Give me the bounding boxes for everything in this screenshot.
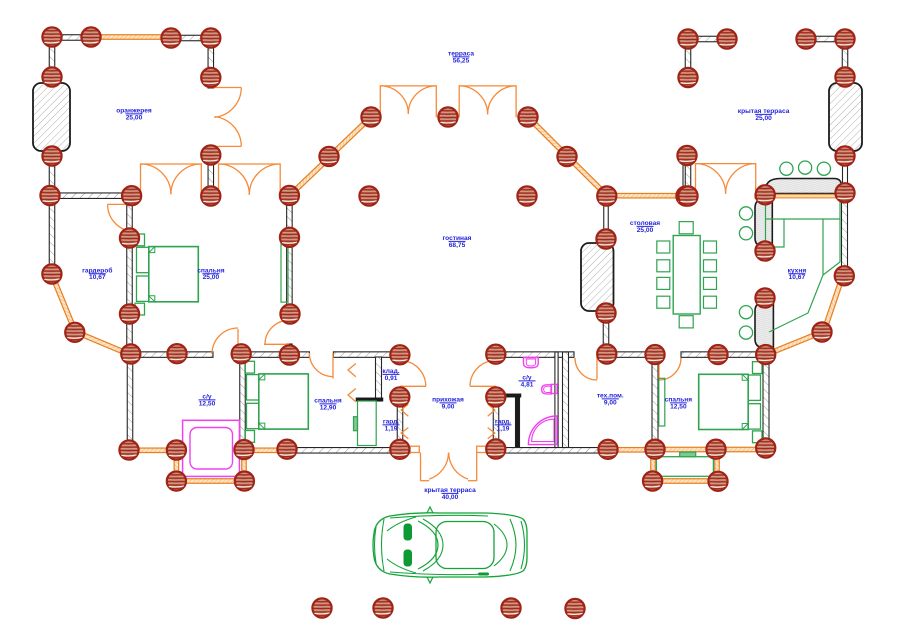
log column P40 [120, 304, 139, 323]
log column P34 [280, 228, 299, 247]
log column P73 [501, 598, 520, 617]
log column P36 [755, 241, 774, 260]
bar stool [739, 207, 752, 220]
bedroom1250 east wall [763, 357, 769, 448]
kitchen worktop edge lines (green) [766, 198, 841, 332]
fireplace F3 (dining) [581, 243, 614, 311]
corner shower bath481 [528, 416, 557, 445]
kitchen counter front strip (orange) [765, 194, 841, 198]
svg-text:0,91: 0,91 [385, 375, 398, 382]
log column P20 [319, 147, 338, 166]
log column P44 [812, 322, 831, 341]
svg-text:56,25: 56,25 [453, 57, 470, 64]
log column P63 [598, 440, 617, 459]
log column P32 [678, 186, 697, 205]
svg-text:12,90: 12,90 [320, 404, 337, 411]
bench bay south wall [650, 479, 720, 484]
log column P21 [557, 147, 576, 166]
south wall orange SE [714, 447, 768, 452]
bench bay east wall [715, 448, 720, 483]
bench bay north wall [653, 447, 719, 452]
terrace diagonal wall NW [326, 114, 373, 159]
svg-text:10,67: 10,67 [789, 274, 806, 281]
dining chair left [657, 260, 670, 272]
corridor wall stub [280, 193, 290, 199]
zigzag opening hall west 1 [401, 404, 408, 416]
log column P7 [796, 29, 815, 48]
south wing north wall A [128, 352, 213, 358]
covered terrace west wall lower [685, 150, 691, 199]
pool bay east wall [242, 449, 247, 483]
kitchen side counter upper (grey) [755, 200, 772, 247]
zigzag opening bedroom north 1 [348, 364, 356, 377]
log column P35 [596, 229, 615, 248]
svg-text:9,00: 9,00 [442, 403, 455, 410]
log column P19 [835, 146, 854, 165]
south wall black west [287, 448, 402, 454]
right wardrobe east wall [515, 397, 520, 451]
entrance stub east [487, 448, 497, 454]
dining chair left [657, 241, 670, 253]
closet door to hall [400, 385, 426, 387]
log column P15 [518, 107, 537, 126]
log column P68 [235, 472, 254, 491]
dining chair left [657, 277, 670, 289]
bedroom1290 door [332, 353, 334, 379]
terrace diagonal wall SW [286, 155, 331, 198]
wardrobe strip bedroom1250 [659, 378, 665, 426]
log column P13 [361, 107, 380, 126]
log column P54 [756, 345, 775, 364]
bar stool [817, 162, 830, 175]
toilet bath481 [551, 384, 557, 393]
garderobe door [108, 203, 135, 205]
svg-text:9,00: 9,00 [604, 399, 617, 406]
bath4 east wall [555, 352, 558, 450]
south wall stub [201, 193, 211, 199]
bar stool [739, 306, 752, 319]
orangery south wall [48, 193, 136, 199]
log column P6 [717, 29, 736, 48]
log column P69 [643, 471, 662, 490]
zigzag opening bedroom north 2 [348, 389, 356, 402]
log column P27 [517, 186, 536, 205]
orangery west wall upper [49, 33, 55, 81]
log column P1 [42, 27, 61, 46]
log column P72 [373, 598, 392, 617]
bar stool [739, 326, 752, 339]
log column P11 [678, 68, 697, 87]
washbasin bath481 [524, 358, 539, 368]
pool bay south wall [173, 479, 247, 484]
kitchen diagonal wall upper [821, 271, 846, 334]
south wall orange SW [126, 448, 178, 453]
entrance stub west [399, 448, 410, 454]
log column P59 [234, 440, 253, 459]
log column P56 [486, 387, 505, 406]
pool bay west wall [174, 449, 179, 483]
terrace diagonal wall NE [525, 114, 569, 158]
south wing north wall E [597, 352, 656, 358]
log column P3 [161, 28, 180, 47]
svg-text:25,00: 25,00 [203, 274, 220, 281]
bath12 west wall [127, 352, 133, 452]
svg-text:40,00: 40,00 [442, 494, 459, 501]
log column P64 [645, 440, 664, 459]
techroom door [596, 358, 598, 379]
zigzag opening hall east 1 [488, 404, 495, 416]
entrance pilaster east [477, 446, 487, 452]
orangery east wall upper [208, 34, 214, 80]
log column P38 [835, 266, 854, 285]
covered terrace east wall upper [842, 35, 848, 81]
log column P74 [565, 599, 584, 618]
log column P25 [280, 186, 299, 205]
svg-text:25,00: 25,00 [637, 227, 654, 234]
south wing north wall F [681, 352, 767, 358]
closet west wall [376, 357, 382, 401]
svg-text:1,19: 1,19 [497, 425, 510, 432]
dining chair right [704, 296, 717, 308]
wardrobe handle bedroom1290 [354, 417, 358, 431]
log column P33 [120, 228, 139, 247]
svg-text:12,50: 12,50 [670, 403, 687, 410]
log column P50 [486, 345, 505, 364]
car (top view) on parking terrace [373, 507, 527, 583]
bedroom25 east wall [287, 193, 293, 322]
bath12 east wall [240, 352, 246, 450]
svg-text:68,75: 68,75 [449, 242, 466, 249]
log column P48 [280, 345, 299, 364]
dining north wall pier [683, 158, 688, 198]
bedroom25 door [264, 343, 289, 345]
double bed bedroom-25 [135, 234, 198, 315]
svg-text:25,00: 25,00 [755, 115, 772, 122]
log column P22 [40, 186, 59, 205]
kitchen east wall upper [843, 152, 848, 196]
log column P66 [756, 438, 775, 457]
wardrobe bedroom1290 [358, 401, 377, 446]
orangery north wall right segment [166, 35, 215, 41]
kitchen bar counter north (grey) [765, 179, 842, 194]
log column P23 [122, 186, 141, 205]
french double door [380, 86, 436, 118]
west wall garderobe [49, 193, 55, 276]
svg-text:гардероб: гардероб [82, 266, 112, 274]
log column P24 [201, 186, 220, 205]
garden bench back tab [680, 452, 696, 457]
dining chair left [657, 296, 670, 308]
log column P31 [835, 183, 854, 202]
entrance double door east leaf [476, 453, 478, 482]
log column P52 [645, 345, 664, 364]
log column P51 [597, 344, 616, 363]
dining table [673, 236, 700, 315]
bedroom1250 door arc [658, 358, 660, 380]
dining chair right [704, 277, 717, 289]
log column P47 [232, 344, 251, 363]
dining chair right [704, 260, 717, 272]
log column P58 [167, 440, 186, 459]
log column P49 [390, 345, 409, 364]
covered terrace west wall upper [685, 35, 691, 81]
south wall black east [494, 448, 609, 454]
orangery north glazed wall [96, 35, 167, 40]
log column P60 [277, 440, 296, 459]
south wing north wall C [333, 352, 401, 358]
south wall orange W [242, 448, 289, 453]
log column P12 [835, 67, 854, 86]
techroom east wall [652, 352, 658, 451]
log column P53 [708, 345, 727, 364]
dining north orange wall [607, 193, 686, 198]
log column P42 [596, 303, 615, 322]
garden bench in south bay [656, 457, 713, 477]
dining chair bottom [679, 316, 693, 328]
bar stool [739, 227, 752, 240]
log column P8 [835, 29, 854, 48]
svg-text:4,81: 4,81 [521, 381, 534, 388]
log column P4 [201, 28, 220, 47]
bath1250 door [237, 329, 239, 354]
log column P61 [390, 440, 409, 459]
log column P37 [42, 264, 61, 283]
bath481 door to hall [470, 385, 496, 387]
svg-text:12,50: 12,50 [199, 400, 216, 407]
techroom west wall [563, 352, 569, 452]
covered terrace north wall west segment [682, 36, 731, 42]
orangery east double doors [211, 87, 241, 89]
log column P41 [280, 304, 299, 323]
kitchen side counter lower (grey) [755, 303, 773, 348]
kitchen diagonal wall lower [763, 329, 825, 358]
pool / shower cabin bath1250 outer [183, 420, 240, 476]
south wing north wall B [237, 352, 310, 358]
fireplace F1 (orangery) [33, 83, 70, 151]
garderobe east wall [127, 199, 133, 317]
log column P67 [167, 472, 186, 491]
west bay diagonal wall upper [49, 272, 78, 335]
terrace diagonal wall SE [564, 153, 609, 198]
log column P28 [597, 186, 616, 205]
hall east wall lower [493, 395, 499, 451]
french double door [219, 164, 281, 196]
bar stool [780, 162, 793, 175]
log column P10 [201, 68, 220, 87]
right wardrobe divider [490, 394, 521, 397]
entrance pilaster west [408, 446, 419, 452]
log column P57 [119, 440, 138, 459]
log column P70 [708, 472, 727, 491]
svg-text:25,00: 25,00 [126, 114, 143, 121]
log column P14 [438, 107, 457, 126]
log column P18 [677, 146, 696, 165]
kitchen door stub east [755, 194, 766, 199]
log column P46 [167, 344, 186, 363]
log column P2 [81, 27, 100, 46]
log column P17 [201, 145, 220, 164]
wardrobe strip bedroom25 [281, 243, 288, 303]
svg-text:1,19: 1,19 [385, 425, 398, 432]
bar stool [799, 161, 812, 174]
zigzag opening hall west 2 [401, 428, 408, 439]
fireplace F2 (covered terrace) [829, 83, 862, 151]
dining chimney wall upper [604, 197, 609, 242]
double bed bedroom-1250 [699, 362, 762, 443]
french double door [141, 164, 202, 196]
orangery east wall lower [208, 146, 214, 199]
pool inner [190, 428, 233, 470]
hall west wall lower [397, 395, 403, 451]
dining chimney wall lower [603, 310, 609, 356]
log column P43 [65, 323, 84, 342]
south wall orange E [607, 448, 658, 453]
french double door [459, 86, 516, 118]
log column P16 [42, 146, 61, 165]
bedroom25 east wall stub [287, 344, 293, 357]
log column P39 [755, 288, 774, 307]
entrance double door west leaf [420, 453, 422, 482]
svg-text:10,67: 10,67 [89, 274, 106, 281]
log column P5 [678, 29, 697, 48]
log column P71 [312, 598, 331, 617]
south wall stub [132, 193, 141, 199]
dining chair right [704, 241, 717, 253]
covered terrace north wall east segment [801, 36, 849, 42]
orangery west wall lower [49, 148, 55, 199]
orangery north wall left segment [44, 35, 96, 41]
log column P65 [706, 440, 725, 459]
kitchen east wall [842, 196, 848, 270]
log column P45 [121, 344, 140, 363]
corridor wall stub [211, 193, 219, 199]
log column P62 [486, 439, 505, 458]
log column P29 [676, 186, 695, 205]
log column P26 [359, 186, 378, 205]
south wing north wall D [496, 352, 574, 358]
closet-wardrobe divider [356, 398, 383, 401]
orangery east wall stub above doors [208, 74, 214, 88]
kitchen door stub [683, 194, 696, 199]
double bed bedroom-1290 [245, 361, 308, 442]
dining chair top [679, 222, 693, 234]
zigzag opening hall east 2 [488, 428, 495, 439]
west bay diagonal wall lower [73, 329, 133, 358]
french double door [696, 164, 756, 196]
log column P9 [42, 67, 61, 86]
log column P30 [756, 185, 775, 204]
garderobe east wall lower [127, 313, 133, 356]
log column P55 [390, 387, 409, 406]
bench bay west wall [651, 448, 656, 483]
